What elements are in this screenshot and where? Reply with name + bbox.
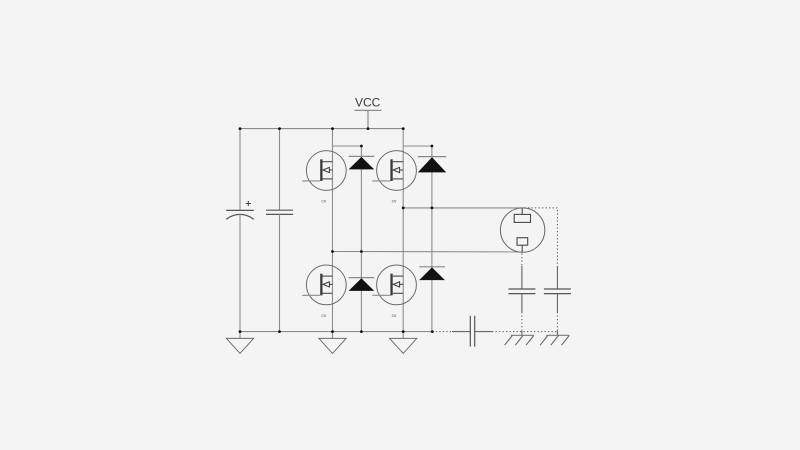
svg-text:cv: cv [321,200,326,205]
ground GND4 (chassis, C4) [505,331,534,345]
power symbol VCC [354,96,381,129]
diode D2 (freewheel, right high) [418,157,446,173]
capacitor C5 (snubber right) [544,266,571,331]
wire: right half-bridge vertical (drain/source line of Q2,Q4) [402,129,404,332]
transistor Q3 (low-side left N-MOSFET) [302,265,346,319]
wire: VCC top rail [240,128,403,130]
wire: D1/D3 vertical [360,146,362,332]
junction dots: diode cathode taps [360,145,433,148]
ground GND2 (triangle, left leg) [319,332,346,354]
junction dots: ground rail [239,330,434,333]
transistor Q2 (high-side right N-MOSFET) [372,151,416,205]
junction dots: node A [331,250,363,253]
diode D4 (freewheel, right low) [419,267,445,280]
wire: Q1 drain to D1 cathode [333,145,362,147]
transistor Q4 (low-side right N-MOSFET) [372,265,416,319]
svg-text:cv: cv [321,314,326,319]
svg-text:cv: cv [392,200,397,205]
wire: node A (left output to motor bottom) [333,251,522,253]
wire: D2/D4 vertical [431,146,433,332]
wire (dotted): motor top to C5 branch [525,208,558,266]
svg-text:cv: cv [392,314,397,319]
wire: ground rail [240,331,432,333]
capacitor C4 (snubber left) [508,266,535,331]
wire: Q2 drain to D2 cathode [403,145,432,147]
wire: node B (right output to motor top) [403,207,522,209]
transistor Q1 (high-side left N-MOSFET) [302,151,346,205]
capacitor C1 (electrolytic bulk cap) [226,129,254,332]
diode D1 (freewheel, left high) [349,156,375,169]
junction dots: node B [402,207,433,210]
wire (dotted): motor bottom to C4 branch [521,254,523,267]
ground GND5 (chassis, C5) [540,331,569,345]
svg-text:VCC: VCC [355,96,381,110]
diode D3 (freewheel, left low) [349,278,375,291]
capacitor C3 (series, horizontal) [452,316,492,347]
ground GND1 (triangle, bulk caps) [226,332,253,354]
junction dots: VCC rail [239,127,405,130]
wire (dotted): C3 to snubber grounds [492,331,557,333]
wire: left half-bridge vertical (drain/source line of Q1,Q3) [332,129,334,332]
wire (dotted): ground rail extension to C3 [432,331,452,333]
motor M1 (transducer) [500,208,544,252]
ground GND3 (triangle, right leg) [390,332,417,354]
capacitor C2 (decoupling cap) [266,129,293,332]
